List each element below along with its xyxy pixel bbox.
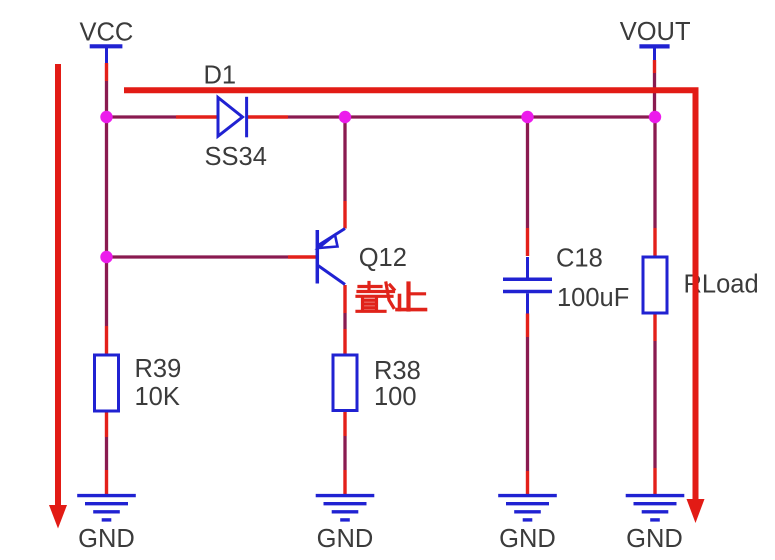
- svg-text:C18: C18: [556, 245, 603, 273]
- svg-text:D1: D1: [204, 62, 237, 90]
- svg-text:R38: R38: [374, 357, 421, 385]
- svg-text:10K: 10K: [135, 383, 180, 411]
- svg-text:GND: GND: [78, 525, 135, 553]
- svg-text:100: 100: [374, 383, 417, 411]
- svg-text:VCC: VCC: [80, 19, 134, 47]
- svg-text:GND: GND: [317, 525, 374, 553]
- svg-text:GND: GND: [626, 525, 683, 553]
- svg-text:R39: R39: [135, 355, 182, 383]
- svg-text:Q12: Q12: [359, 244, 407, 272]
- svg-text:100uF: 100uF: [557, 284, 629, 312]
- svg-text:GND: GND: [499, 525, 556, 553]
- svg-text:SS34: SS34: [205, 143, 267, 171]
- svg-text:VOUT: VOUT: [620, 18, 691, 46]
